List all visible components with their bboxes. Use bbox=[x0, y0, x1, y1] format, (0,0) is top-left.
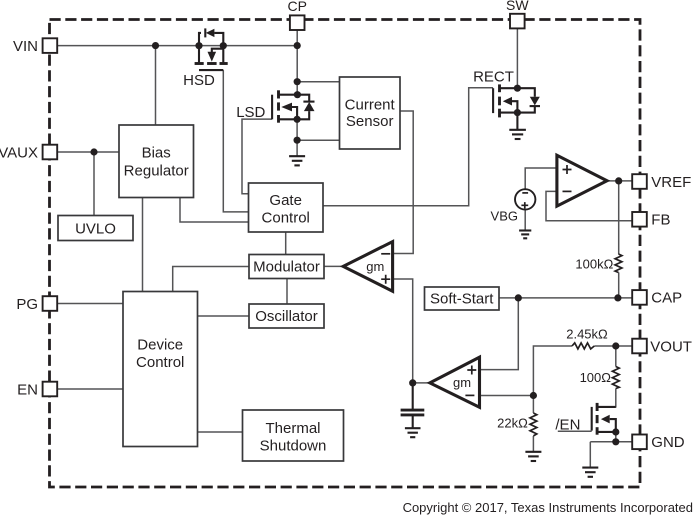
transistor /EN FET body arrow bbox=[601, 415, 616, 432]
wire 22k resistor to ground bbox=[532, 436, 534, 452]
svg-text:FB: FB bbox=[651, 212, 670, 229]
junction node gm2 inverting divider bbox=[530, 392, 537, 399]
device boundary dashed border bbox=[50, 20, 641, 488]
wire op-amp inverting input to FB bbox=[546, 191, 632, 220]
UVLO block bbox=[58, 216, 133, 241]
svg-text:Current: Current bbox=[345, 96, 396, 113]
svg-text:Control: Control bbox=[262, 209, 310, 226]
svg-text:Shutdown: Shutdown bbox=[260, 438, 327, 455]
wire 2.45k resistor to VOUT pin bbox=[594, 345, 632, 347]
transistor LSD body diode bbox=[297, 95, 314, 120]
Current Sensor block bbox=[340, 77, 401, 149]
pin VIN bbox=[13, 38, 57, 55]
svg-text:VREF: VREF bbox=[651, 174, 691, 191]
svg-text:UVLO: UVLO bbox=[75, 220, 116, 237]
resistor 100k bbox=[575, 254, 622, 273]
junction node gm2 output bbox=[409, 379, 416, 386]
junction node VIN/CP bbox=[294, 42, 301, 49]
wire VBG to ground bbox=[524, 210, 526, 231]
svg-text:HSD: HSD bbox=[183, 72, 215, 89]
resistor 100ohm bbox=[580, 367, 620, 389]
ground LSD bbox=[289, 156, 305, 165]
transistor /EN FET drain lead bbox=[597, 406, 616, 408]
wire CAP node to gm2 noninverting input bbox=[480, 298, 519, 370]
svg-text:Bias: Bias bbox=[142, 145, 171, 162]
wire HSD gate to Gate Control bbox=[223, 70, 248, 212]
Thermal Shutdown block bbox=[243, 410, 344, 461]
svg-text:VAUX: VAUX bbox=[0, 144, 38, 161]
wire Bias Regulator to Device Control bbox=[142, 198, 144, 292]
wire Modulator to Oscillator bbox=[286, 279, 288, 305]
svg-text:2.45kΩ: 2.45kΩ bbox=[566, 327, 608, 342]
svg-text:PG: PG bbox=[16, 296, 38, 313]
ground 22k bbox=[525, 452, 541, 461]
wire gm1 noninverting input to gm2 output node bbox=[393, 279, 413, 383]
wire gm2 inverting input to divider node bbox=[480, 395, 534, 397]
svg-text:CP: CP bbox=[287, 0, 306, 14]
wire 100ohm resistor to /EN FET drain bbox=[597, 389, 616, 407]
svg-text:VOUT: VOUT bbox=[650, 338, 692, 355]
wire RECT source to ground bbox=[516, 113, 518, 130]
junction node Current Sensor bottom bbox=[294, 137, 301, 144]
wire node to Current Sensor top bbox=[297, 81, 339, 83]
wire LSD gate to Gate Control bbox=[242, 119, 272, 194]
svg-text:Device: Device bbox=[137, 337, 183, 354]
resistor 22k bbox=[497, 413, 537, 436]
wire Gate Control to Modulator bbox=[285, 232, 287, 255]
wire VIN bus bbox=[57, 45, 297, 47]
label /EN bbox=[555, 416, 591, 433]
transistor RECT body arrow bbox=[503, 97, 518, 113]
op-amp gm1 error amplifier bbox=[343, 242, 392, 292]
svg-text:Control: Control bbox=[136, 354, 184, 371]
wire RECT gate to Gate Control bbox=[323, 88, 493, 206]
svg-text:Copyright © 2017, Texas Instru: Copyright © 2017, Texas Instruments Inco… bbox=[403, 500, 693, 515]
transistor HSD body diode bbox=[199, 28, 223, 45]
junction node HSD source bbox=[220, 42, 227, 49]
Gate Control block bbox=[249, 183, 324, 232]
junction node VREF output bbox=[615, 177, 622, 184]
transistor LSD drain lead bbox=[279, 94, 298, 96]
transistor RECT channel bbox=[498, 84, 501, 117]
wire source node to ground bbox=[589, 442, 591, 468]
transistor RECT drain lead bbox=[500, 87, 518, 89]
transistor RECT source lead bbox=[500, 112, 518, 114]
wire PG to Device Control bbox=[57, 303, 123, 305]
pin VAUX bbox=[0, 144, 57, 161]
pin PG bbox=[16, 296, 57, 313]
label RECT bbox=[473, 69, 514, 86]
svg-text:CAP: CAP bbox=[651, 290, 682, 307]
wire VIN to Bias Regulator bbox=[155, 46, 157, 125]
svg-text:EN: EN bbox=[17, 381, 38, 398]
junction node LSD source bbox=[294, 116, 301, 123]
svg-text:Modulator: Modulator bbox=[253, 259, 320, 276]
wire Modulator to Device Control bbox=[173, 267, 249, 292]
pin EN bbox=[17, 381, 57, 398]
svg-text:gm: gm bbox=[453, 375, 471, 390]
junction node /EN FET source bbox=[612, 428, 619, 435]
transistor /EN FET channel bbox=[596, 403, 599, 435]
pin VREF bbox=[632, 174, 691, 191]
wire Bias Regulator to Gate Control bbox=[180, 198, 249, 223]
svg-text:Oscillator: Oscillator bbox=[255, 308, 318, 325]
junction node LSD drain bbox=[294, 91, 301, 98]
label HSD bbox=[183, 72, 215, 89]
capacitor C1 bbox=[401, 383, 425, 428]
junction node Soft-Start output bbox=[515, 294, 522, 301]
Bias Regulator block bbox=[119, 125, 194, 198]
wire CP down to LSD drain bbox=[296, 30, 298, 95]
svg-text:RECT: RECT bbox=[473, 69, 514, 86]
copyright notice bbox=[403, 500, 693, 515]
Device Control block bbox=[123, 292, 198, 447]
svg-text:LSD: LSD bbox=[236, 104, 265, 121]
junction node VIN/Bias bbox=[152, 42, 159, 49]
transistor /EN FET source lead bbox=[597, 431, 616, 433]
wire divider node to 22k resistor bbox=[532, 396, 534, 414]
pin CP bbox=[287, 0, 306, 30]
wire node to Current Sensor bottom bbox=[297, 139, 339, 141]
svg-text:VIN: VIN bbox=[13, 38, 38, 55]
pin GND bbox=[632, 434, 685, 451]
junction node GND wire bbox=[612, 438, 619, 445]
ground /EN bbox=[582, 468, 598, 477]
wire SW to RECT drain bbox=[516, 28, 518, 88]
transistor /EN FET gate bar bbox=[591, 407, 593, 431]
label LSD bbox=[236, 104, 265, 121]
op-amp gm2 output comparator bbox=[430, 357, 480, 407]
transistor LSD channel bbox=[277, 90, 280, 122]
junction node VAUX/UVLO bbox=[90, 148, 97, 155]
junction node HSD drain bbox=[195, 42, 202, 49]
pin VOUT bbox=[632, 338, 692, 355]
svg-text:gm: gm bbox=[366, 259, 384, 274]
wire /EN FET source node down bbox=[615, 432, 617, 442]
transistor RECT gate bar bbox=[492, 88, 494, 113]
wire EN to Device Control bbox=[57, 388, 123, 390]
wire 100k resistor to CAP node bbox=[618, 272, 620, 298]
transistor HSD body arrow bbox=[208, 49, 224, 62]
transistor HSD gate bar bbox=[199, 69, 223, 71]
wire LSD source to ground bbox=[296, 119, 298, 156]
wire Device Control to Thermal Shutdown bbox=[198, 431, 243, 433]
svg-text:100kΩ: 100kΩ bbox=[575, 257, 613, 272]
svg-text:Gate: Gate bbox=[269, 192, 302, 209]
wire source node to GND pin bbox=[590, 441, 632, 443]
transistor HSD source lead bbox=[222, 46, 224, 63]
wire VAUX to UVLO bbox=[93, 152, 95, 216]
svg-text:Thermal: Thermal bbox=[265, 420, 320, 437]
wire gm2 output to node bbox=[413, 382, 430, 384]
svg-text:22kΩ: 22kΩ bbox=[497, 416, 528, 431]
pin FB bbox=[632, 212, 670, 229]
transistor HSD drain lead bbox=[198, 46, 200, 63]
wire VOUT node to 100ohm resistor bbox=[615, 346, 617, 367]
junction node RECT drain bbox=[514, 85, 521, 92]
svg-text:Regulator: Regulator bbox=[124, 163, 189, 180]
svg-text:Soft-Start: Soft-Start bbox=[430, 291, 494, 308]
wire op-amp output to VREF pin bbox=[607, 180, 632, 182]
wire Oscillator to Device Control bbox=[198, 315, 250, 317]
wire Current Sensor to gm1 inverting input bbox=[393, 111, 414, 254]
junction node RECT source bbox=[514, 109, 521, 116]
pin CAP bbox=[632, 290, 682, 307]
ground VBG bbox=[519, 231, 531, 239]
transistor HSD channel bbox=[195, 62, 228, 65]
ground RECT bbox=[509, 130, 526, 139]
ground capacitor bbox=[405, 428, 421, 437]
transistor LSD body arrow bbox=[281, 103, 297, 120]
Modulator block bbox=[249, 255, 324, 279]
svg-text:VBG: VBG bbox=[491, 208, 518, 223]
wire Soft-Start to CAP pin bbox=[499, 297, 632, 299]
transistor LSD gate bar bbox=[271, 95, 273, 120]
wire VAUX to Bias Regulator bbox=[57, 151, 119, 153]
svg-text:Sensor: Sensor bbox=[346, 113, 394, 130]
op-amp U1 VREF buffer bbox=[557, 155, 607, 206]
svg-text:SW: SW bbox=[506, 0, 529, 13]
wire divider node to 2.45k resistor bbox=[533, 346, 572, 396]
wire op-amp noninverting input to VBG bbox=[525, 168, 557, 189]
Soft-Start block bbox=[425, 287, 500, 310]
resistor 2.45k bbox=[566, 327, 608, 349]
svg-text:100Ω: 100Ω bbox=[580, 370, 612, 385]
svg-text:GND: GND bbox=[651, 434, 685, 451]
Oscillator block bbox=[249, 304, 324, 328]
junction node Current Sensor top bbox=[294, 78, 301, 85]
pin SW bbox=[506, 0, 529, 28]
wire VREF node down to 100k resistor bbox=[618, 181, 620, 254]
junction node CAP/100k bbox=[614, 294, 621, 301]
voltage source VBG bbox=[515, 189, 535, 209]
junction node VOUT divider bbox=[612, 342, 619, 349]
wire gm1 output to Modulator bbox=[324, 265, 343, 267]
transistor RECT body diode bbox=[517, 88, 540, 112]
transistor LSD source lead bbox=[279, 118, 298, 120]
label VBG bbox=[491, 208, 518, 223]
